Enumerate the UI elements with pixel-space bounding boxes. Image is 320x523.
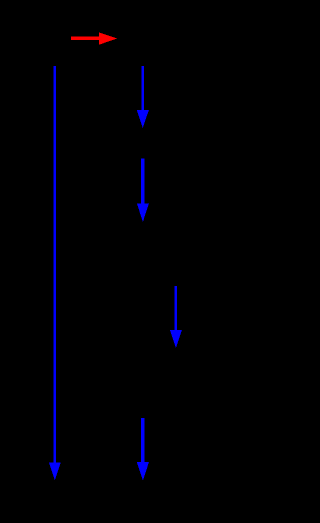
blue arrow C (right column, third, offset right) <box>170 286 182 348</box>
blue arrow B (right column, second, thick) <box>137 159 149 222</box>
blue arrow A (right column, first) <box>137 66 149 128</box>
blue arrow D (right column, bottom, thick) <box>137 418 149 481</box>
blue arrow (long left vertical) <box>49 66 61 481</box>
red arrow (horizontal, top) <box>71 32 117 44</box>
